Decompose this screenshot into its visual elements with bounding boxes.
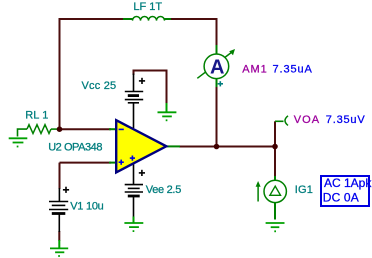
wire right vertical to ammeter — [216, 19, 218, 45]
ammeter AM1 top lead — [216, 45, 218, 55]
op-amp U2 body — [116, 120, 166, 172]
svg-text:V1 10u: V1 10u — [70, 201, 103, 213]
battery Vcc plates — [125, 92, 143, 103]
ground for Vee — [124, 217, 143, 232]
ammeter AM1 arrow — [197, 52, 232, 78]
ground for RL — [9, 138, 28, 146]
ground for Vcc — [158, 103, 177, 120]
inductor LF coil — [133, 17, 165, 21]
svg-text:U2 OPA348: U2 OPA348 — [48, 141, 102, 153]
VOA pin lead — [275, 120, 284, 122]
wire non-inverting branch vertical to V1 — [59, 163, 61, 189]
ground for IG1 — [266, 223, 285, 231]
op-amp U2 input leads — [109, 129, 116, 162]
wire top horizontal left segment — [59, 18, 125, 20]
wire non-inverting input horizontal — [60, 162, 112, 164]
ammeter AM1 body — [204, 54, 229, 79]
svg-text:IG1: IG1 — [295, 184, 313, 196]
battery V1 plus mark — [63, 187, 69, 193]
svg-text:VOA: VOA — [294, 114, 320, 126]
current source IG1 direction arrow — [257, 185, 259, 202]
junction node at ammeter/output — [214, 144, 220, 150]
current source IG1 top lead — [274, 176, 276, 181]
wire top horizontal right segment — [168, 18, 218, 20]
current source IG1 delta symbol — [270, 186, 281, 195]
battery Vee plates — [125, 185, 143, 196]
battery Vee plus mark — [139, 170, 145, 176]
battery V1 bottom lead — [58, 215, 60, 233]
ammeter AM1 plus mark — [218, 81, 223, 86]
battery Vee bottom lead — [133, 197, 135, 217]
ammeter AM1 bottom lead — [216, 78, 218, 87]
op-amp U2 plus mark supply — [130, 156, 135, 161]
svg-text:RL 1: RL 1 — [25, 110, 48, 122]
junction node at VOA/IG1 — [272, 144, 278, 150]
svg-text:LF 1T: LF 1T — [133, 1, 162, 13]
current source IG1 body — [264, 180, 286, 202]
wire inverting input horizontal — [60, 128, 112, 130]
svg-text:7.35uV: 7.35uV — [326, 114, 366, 126]
op-amp U2 bottom supply pin — [133, 162, 135, 185]
op-amp U2 top supply pin — [133, 103, 135, 128]
inductor LF leads — [123, 18, 171, 20]
wire VOA branch vertical — [274, 121, 276, 146]
wire top-left vertical — [59, 19, 61, 129]
current source IG1 bottom lead — [274, 202, 276, 220]
battery V1 top lead — [58, 188, 60, 201]
battery Vcc top lead — [133, 74, 135, 92]
wire IG1 branch vertical — [274, 147, 276, 178]
svg-text:A: A — [210, 57, 224, 79]
op-amp U2 plus mark input — [119, 160, 124, 165]
resistor RL zigzag — [27, 125, 51, 134]
battery Vcc plus mark — [139, 78, 145, 84]
svg-text:Vee 2.5: Vee 2.5 — [146, 184, 181, 196]
resistor RL right lead — [51, 128, 58, 130]
VOA pin terminal arc — [285, 116, 288, 126]
op-amp U2 minus mark — [119, 128, 124, 130]
wire op-amp output horizontal — [179, 146, 276, 148]
wire ammeter to output node — [216, 86, 218, 147]
svg-text:AM1: AM1 — [242, 63, 267, 75]
svg-text:7.35uA: 7.35uA — [273, 63, 313, 75]
junction node at RL/inputs — [57, 126, 63, 132]
battery V1 plates — [49, 202, 68, 214]
svg-text:AC 1Apk: AC 1Apk — [324, 176, 372, 190]
resistor RL left lead — [18, 129, 28, 136]
ground for V1 — [50, 240, 68, 256]
source data box — [321, 176, 369, 206]
svg-text:Vcc 25: Vcc 25 — [82, 80, 117, 92]
wire Vcc plus to ground corner — [134, 71, 167, 104]
svg-text:DC 0A: DC 0A — [323, 191, 359, 205]
op-amp U2 output lead — [167, 145, 181, 147]
wire V1 bottom to ground — [58, 231, 60, 241]
